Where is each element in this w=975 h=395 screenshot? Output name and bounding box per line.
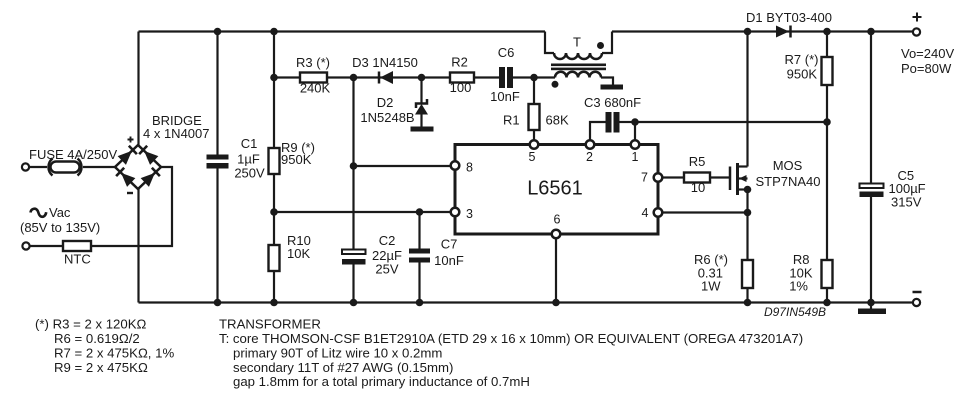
wire R2 C6 row <box>422 76 535 78</box>
wire R9 R10 vertical <box>273 32 275 303</box>
svg-text:R2: R2 <box>451 55 468 70</box>
wire C3 node to R7 bottom <box>635 121 827 123</box>
svg-text:4: 4 <box>642 206 649 220</box>
thermistor NTC <box>63 241 91 251</box>
svg-text:D2: D2 <box>377 95 394 110</box>
ground transformer secondary <box>601 85 624 90</box>
svg-text:1: 1 <box>632 150 639 164</box>
svg-text:950K: 950K <box>281 152 312 167</box>
svg-text:D1 BYT03-400: D1 BYT03-400 <box>746 10 832 25</box>
primary winding <box>554 53 602 59</box>
svg-text:gap 1.8mm for a total primary: gap 1.8mm for a total primary inductance… <box>233 374 530 389</box>
svg-text:Vac: Vac <box>49 205 71 220</box>
body lead with arrow <box>738 177 748 179</box>
svg-text:950K: 950K <box>787 67 818 82</box>
wire C2 to ground bus <box>352 265 354 303</box>
resistor R3 <box>300 73 327 83</box>
svg-text:4 x 1N4007: 4 x 1N4007 <box>143 126 210 141</box>
wire pin 2 to C3 <box>590 122 606 141</box>
wire Vcc vertical D3 to C2 <box>352 78 354 250</box>
wire bridge plus to top bus <box>137 32 139 146</box>
label Vac sine symbol <box>31 209 47 217</box>
fuse F <box>48 159 81 176</box>
svg-text:8: 8 <box>466 161 473 175</box>
svg-text:5: 5 <box>529 150 536 164</box>
capacitor C2 <box>342 250 366 265</box>
svg-text:NTC: NTC <box>64 252 91 267</box>
wire transformer primary left drop <box>545 32 554 54</box>
svg-text:R5: R5 <box>689 154 706 169</box>
svg-text:C7: C7 <box>441 237 458 252</box>
svg-text:MOS: MOS <box>773 158 803 173</box>
resistor R5 <box>684 173 710 183</box>
svg-text:T: core THOMSON-CSF B1ET2910A: T: core THOMSON-CSF B1ET2910A (ETD 29 x … <box>219 331 803 346</box>
bridge diode lower-right <box>141 168 160 187</box>
wire top bus left <box>139 30 546 32</box>
wire transformer secondary right lead to ground <box>601 78 613 85</box>
svg-text:10: 10 <box>691 180 705 195</box>
resistor R8 <box>822 260 833 288</box>
diode D3 <box>379 71 393 84</box>
label bridge minus <box>127 192 133 194</box>
svg-text:2: 2 <box>586 150 593 164</box>
svg-text:10nF: 10nF <box>490 89 520 104</box>
pin 8 <box>451 161 460 170</box>
wire D3 row <box>354 76 422 78</box>
pin 6 <box>552 230 561 239</box>
wire transformer primary right rise <box>602 32 612 54</box>
svg-text:1%: 1% <box>789 279 808 294</box>
svg-text:R7 (*): R7 (*) <box>785 52 819 67</box>
svg-text:25V: 25V <box>375 262 398 277</box>
svg-text:C6: C6 <box>498 45 515 60</box>
wire R7 vertical <box>826 32 828 123</box>
svg-text:(*) R3 = 2 x 120KΩ: (*) R3 = 2 x 120KΩ <box>35 317 147 332</box>
label bridge plus <box>128 137 134 143</box>
svg-text:R6 = 0.619Ω/2: R6 = 0.619Ω/2 <box>54 331 140 346</box>
svg-text:1W: 1W <box>701 279 721 294</box>
wire C3 right <box>620 121 636 123</box>
resistor R1 <box>529 104 540 130</box>
source lead <box>738 188 748 190</box>
capacitor C6 <box>499 67 513 88</box>
svg-text:Po=80W: Po=80W <box>901 61 952 76</box>
wire R5 to gate <box>710 176 730 178</box>
svg-text:68K: 68K <box>546 113 569 128</box>
wire bottom bus <box>139 301 914 303</box>
svg-text:R9 = 2 x 475KΩ: R9 = 2 x 475KΩ <box>54 360 148 375</box>
resistor R10 <box>269 245 280 271</box>
resistor R7 <box>822 57 833 85</box>
bridge diode upper-left <box>118 146 137 165</box>
channel bar <box>736 163 739 195</box>
svg-text:10K: 10K <box>287 246 310 261</box>
svg-text:T: T <box>573 35 581 50</box>
wire pin 8 <box>354 165 451 167</box>
resistor R9 <box>269 148 280 174</box>
pin 2 <box>586 140 595 149</box>
bridge diode lower-left <box>116 168 135 187</box>
svg-text:STP7NA40: STP7NA40 <box>755 174 820 189</box>
junction dot pin 8 node <box>350 162 358 170</box>
capacitor C7 <box>409 249 430 263</box>
bridge diode upper-right <box>139 146 158 165</box>
wire R8 vertical <box>826 122 828 303</box>
svg-text:6: 6 <box>554 213 561 227</box>
gate bar <box>729 167 732 191</box>
svg-text:D3 1N4150: D3 1N4150 <box>352 55 418 70</box>
drain lead <box>738 165 748 167</box>
svg-text:250V: 250V <box>234 166 265 181</box>
svg-text:C3 680nF: C3 680nF <box>584 95 641 110</box>
label plus <box>913 13 922 22</box>
secondary winding <box>555 72 601 78</box>
wire transformer secondary left lead <box>534 76 555 78</box>
svg-text:R3 (*): R3 (*) <box>296 55 330 70</box>
resistor R6 <box>742 260 753 288</box>
svg-text:R7 = 2 x 475KΩ, 1%: R7 = 2 x 475KΩ, 1% <box>54 346 174 361</box>
svg-text:(85V to 135V): (85V to 135V) <box>20 220 100 235</box>
wire C5 branch <box>870 32 872 309</box>
secondary phase dot <box>552 81 559 88</box>
junction dots C3 row <box>631 118 639 126</box>
pin 1 <box>631 140 640 149</box>
svg-text:L6561: L6561 <box>527 178 583 200</box>
svg-text:7: 7 <box>641 171 648 185</box>
svg-text:secondary 11T of #27 AWG (0.15: secondary 11T of #27 AWG (0.15mm) <box>233 360 453 375</box>
terminal input neutral <box>22 242 29 249</box>
zener D2 <box>415 99 428 115</box>
transistor Q1 MOS <box>730 163 748 195</box>
terminal input line <box>22 163 29 170</box>
bridge rectifier <box>115 145 161 189</box>
wire pin 7 to R5 <box>662 176 684 178</box>
wire D2 branch <box>420 78 422 128</box>
svg-text:primary 90T of Litz wire 10 x: primary 90T of Litz wire 10 x 0.2mm <box>233 346 442 361</box>
wire MOS source to bottom bus <box>746 190 748 303</box>
wire pin 3 <box>274 211 451 213</box>
resistor R2 <box>450 73 474 83</box>
pin 5 <box>530 140 539 149</box>
pin 4 <box>654 208 663 217</box>
wire R3 row <box>274 76 354 78</box>
wire pin 4 to source node <box>662 211 748 213</box>
wire R1 to pin 5 <box>533 78 535 141</box>
svg-text:315V: 315V <box>891 195 922 210</box>
wire top bus right <box>612 30 913 32</box>
junction dots top bus <box>214 28 222 36</box>
svg-text:3: 3 <box>466 207 473 221</box>
svg-text:FUSE 4A/250V: FUSE 4A/250V <box>29 147 117 162</box>
wire bridge minus to bottom bus <box>137 189 139 303</box>
svg-text:10nF: 10nF <box>434 253 464 268</box>
junction dots R3 row <box>270 74 278 82</box>
wire MOS drain to top bus <box>746 32 748 167</box>
junction dots pin 3 row <box>270 208 278 216</box>
diode D1 <box>776 26 791 38</box>
capacitor C5 <box>860 184 884 198</box>
pin 7 <box>654 173 663 182</box>
capacitor C3 <box>606 112 620 133</box>
wire C7 branch <box>418 212 420 303</box>
svg-text:R1: R1 <box>503 113 520 128</box>
svg-text:TRANSFORMER: TRANSFORMER <box>219 317 321 332</box>
pin 3 <box>451 208 460 217</box>
wire pin 6 to ground bus <box>555 238 557 303</box>
svg-text:1µF: 1µF <box>237 152 260 167</box>
ground output <box>858 309 886 315</box>
wire pin 1 <box>634 122 636 141</box>
svg-text:Vo=240V: Vo=240V <box>901 46 954 61</box>
svg-text:100: 100 <box>450 80 472 95</box>
terminal output minus <box>913 299 920 306</box>
wire fuse input <box>29 166 115 168</box>
svg-text:C1: C1 <box>241 136 258 151</box>
svg-text:D97IN549B: D97IN549B <box>764 305 826 319</box>
transformer T <box>551 42 606 88</box>
ground D2 <box>411 127 434 132</box>
label minus <box>913 291 922 294</box>
terminal output plus <box>913 28 920 35</box>
primary phase dot <box>597 42 604 49</box>
svg-text:1N5248B: 1N5248B <box>360 110 414 125</box>
wire C1 branch <box>216 32 218 303</box>
junction dots MOS source <box>744 186 752 194</box>
junction dots bottom bus <box>214 299 222 307</box>
capacitor C1 <box>207 155 229 169</box>
op-amp U1 L6561 box <box>455 145 658 235</box>
svg-text:C2: C2 <box>379 233 396 248</box>
core <box>551 64 606 67</box>
wire Vac/NTC input <box>30 167 173 246</box>
svg-text:240K: 240K <box>300 81 331 96</box>
